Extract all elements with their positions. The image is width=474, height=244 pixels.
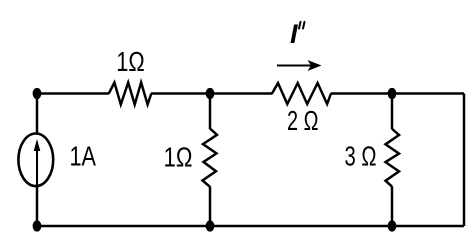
wire top-right segment	[331, 92, 464, 95]
node dot top-right	[388, 88, 397, 99]
resistor R3 1ohm vertical	[203, 129, 218, 187]
node dot top-middle	[206, 88, 215, 99]
wire bottom	[37, 225, 464, 228]
current source I1 circle	[18, 134, 53, 187]
wire middle branch lower	[209, 187, 212, 227]
wire left branch lower	[36, 187, 39, 226]
current arrow I''	[277, 60, 322, 71]
wire right vertical	[463, 94, 466, 227]
svg-text:1Ω: 1Ω	[164, 142, 193, 173]
wire middle branch upper	[209, 94, 212, 130]
wire top-left segment	[37, 92, 109, 95]
resistor R4 3ohm vertical	[386, 129, 400, 187]
svg-text:2 Ω: 2 Ω	[287, 105, 319, 136]
wire top-middle segment	[151, 92, 273, 95]
resistor R2 2ohm horizontal	[272, 83, 331, 104]
wire right-resistor branch upper	[391, 94, 394, 130]
node dot bottom-right	[388, 220, 397, 231]
svg-text:3 Ω: 3 Ω	[345, 141, 377, 172]
node dot bottom-left	[33, 220, 42, 231]
svg-text:1Ω: 1Ω	[116, 46, 145, 77]
svg-text:I: I	[290, 19, 298, 49]
svg-text:1A: 1A	[70, 141, 97, 172]
node dot bottom-middle	[206, 220, 215, 231]
wire left branch upper	[36, 94, 39, 134]
resistor R1 1ohm horizontal	[109, 83, 152, 105]
wire right-resistor branch lower	[391, 186, 394, 226]
node dot top-left	[33, 88, 42, 99]
current source I1 arrow	[34, 139, 41, 186]
